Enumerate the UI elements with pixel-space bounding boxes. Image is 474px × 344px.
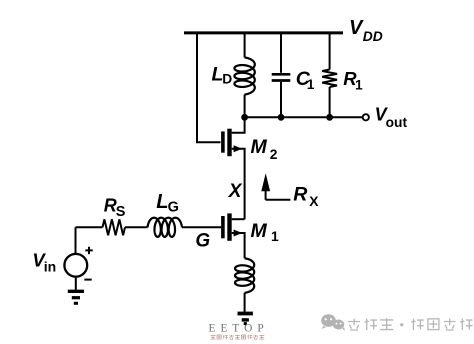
svg-text:X: X <box>309 194 319 209</box>
svg-text:M: M <box>251 220 268 242</box>
svg-text:R: R <box>293 184 307 206</box>
svg-text:G: G <box>195 230 210 251</box>
svg-text:out: out <box>386 115 408 130</box>
svg-text:1: 1 <box>271 229 279 244</box>
svg-text:1: 1 <box>355 78 363 93</box>
svg-text:V: V <box>349 17 364 39</box>
svg-text:S: S <box>116 204 126 220</box>
svg-text:X: X <box>228 181 243 202</box>
svg-text:M: M <box>251 136 268 158</box>
svg-text:G: G <box>168 200 179 216</box>
svg-text:E E T O P: E E T O P <box>209 323 265 335</box>
svg-text:2: 2 <box>270 147 278 162</box>
svg-text:in: in <box>44 259 56 275</box>
svg-text:D: D <box>222 72 232 87</box>
svg-text:1: 1 <box>307 77 315 92</box>
svg-text:DD: DD <box>363 29 383 44</box>
